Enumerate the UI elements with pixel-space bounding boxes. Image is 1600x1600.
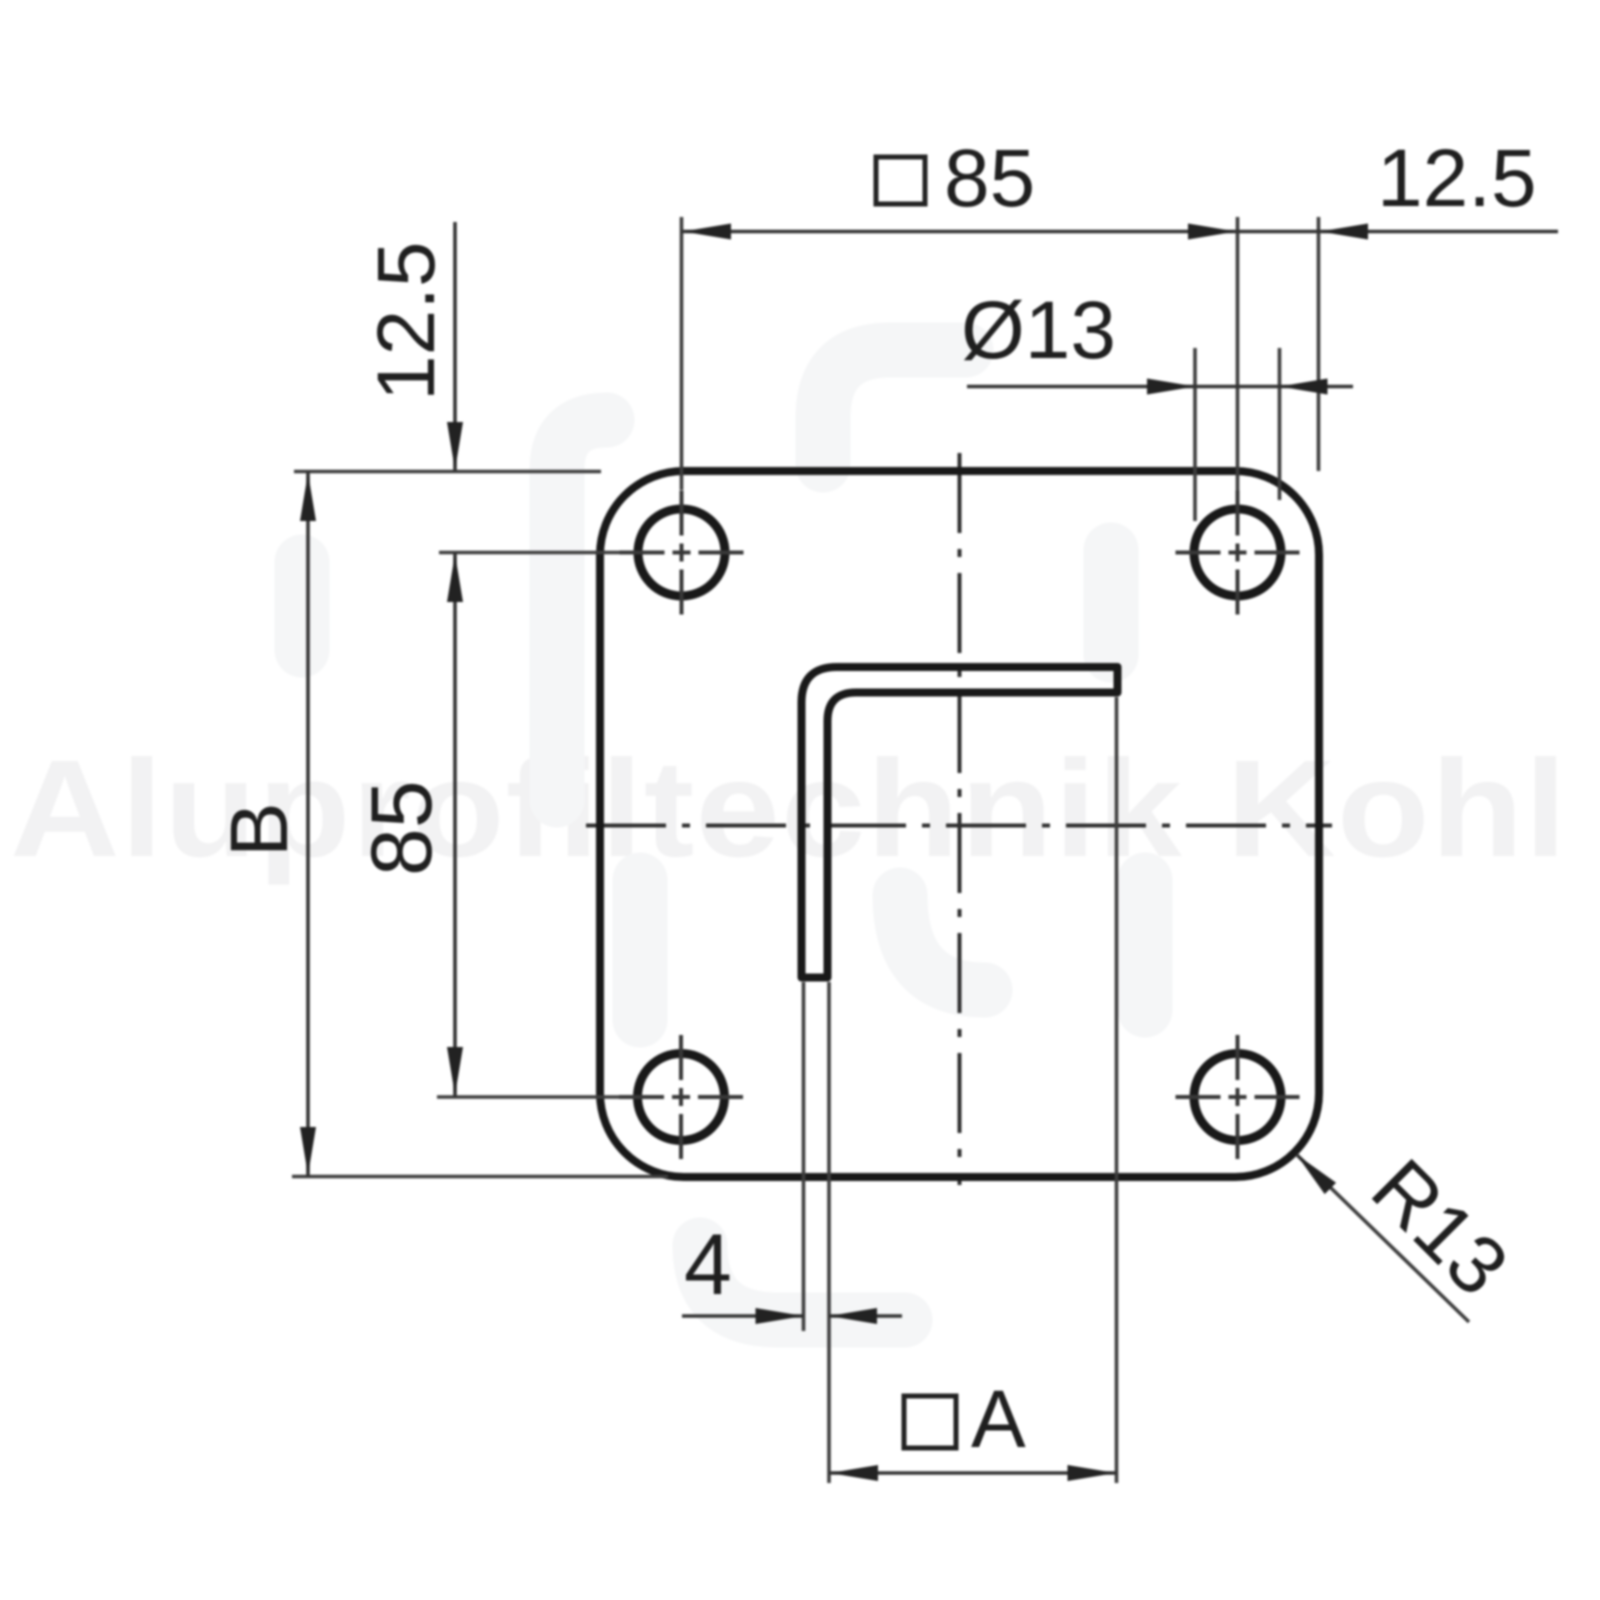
arrow A right (1068, 1465, 1116, 1481)
leader line R13 (1297, 1155, 1470, 1323)
extension line hole TL horizontal left (439, 551, 620, 555)
svg-text:B: B (214, 802, 305, 857)
dim line 12.5 top right (1238, 230, 1559, 234)
arrow 4 right (829, 1308, 877, 1324)
extension line profile outer wall down (802, 982, 806, 1331)
square symbol bottom (904, 1396, 956, 1448)
L-profile cross-section (802, 667, 1118, 978)
dim line B (306, 472, 310, 1177)
arrow A left (830, 1465, 878, 1481)
centerline horizontal (586, 824, 1332, 828)
svg-text:12.5: 12.5 (1377, 133, 1537, 224)
arrow 85 top right (1188, 224, 1236, 240)
centerline vertical (958, 453, 962, 1185)
square symbol top (876, 157, 925, 204)
hole bottom-left (619, 1035, 743, 1159)
arrow R13 leader (1297, 1155, 1337, 1195)
extension line hole BL horizontal left (437, 1095, 619, 1099)
arrow 85 left top (447, 554, 463, 602)
extension line hole TR right tangent (1278, 348, 1282, 500)
dim line diameter 13 (967, 385, 1353, 389)
arrow 85 top left (683, 224, 731, 240)
arrow 12.5 left down (447, 422, 463, 470)
watermark text Aluprofiltechnik Kohl (10, 731, 1568, 885)
plate outline (600, 471, 1319, 1177)
svg-text:85: 85 (944, 133, 1035, 224)
extension line plate top edge left (294, 470, 601, 474)
dim line 4 right segment (829, 1314, 902, 1318)
arrow B bottom (300, 1127, 316, 1175)
arrow 4 left (756, 1308, 804, 1324)
svg-text:A: A (971, 1374, 1026, 1465)
hole top-left (620, 491, 744, 615)
extension line hole TR left tangent (1193, 348, 1197, 521)
arrow d13 right (1280, 379, 1328, 395)
dim line 4 left segment (682, 1314, 804, 1318)
watermark logo fragments (302, 350, 1145, 1320)
extension line profile right end down (1115, 697, 1119, 1483)
extension line hole TR vertical up (1236, 217, 1240, 491)
extension line plate bottom edge left (292, 1175, 668, 1179)
extension line plate right edge up (1317, 217, 1321, 471)
arrow B top (300, 473, 316, 521)
dim line 85 top (682, 230, 1238, 234)
extension line hole TL vertical up (680, 217, 684, 490)
svg-text:12.5: 12.5 (361, 241, 452, 401)
extension line profile inner wall down (827, 982, 831, 1483)
svg-text:85: 85 (354, 780, 450, 876)
arrow 85 left bottom (447, 1047, 463, 1095)
svg-text:Ø13: Ø13 (961, 285, 1116, 376)
svg-text:4: 4 (684, 1217, 732, 1313)
dim line A bottom (829, 1471, 1117, 1475)
hole bottom-right (1176, 1035, 1300, 1159)
arrow 12.5 top (1320, 224, 1368, 240)
hole top-right (1176, 491, 1300, 615)
arrow d13 left (1147, 379, 1195, 395)
dim line 85 left (453, 553, 457, 1098)
dim line 12.5 left (453, 222, 457, 472)
